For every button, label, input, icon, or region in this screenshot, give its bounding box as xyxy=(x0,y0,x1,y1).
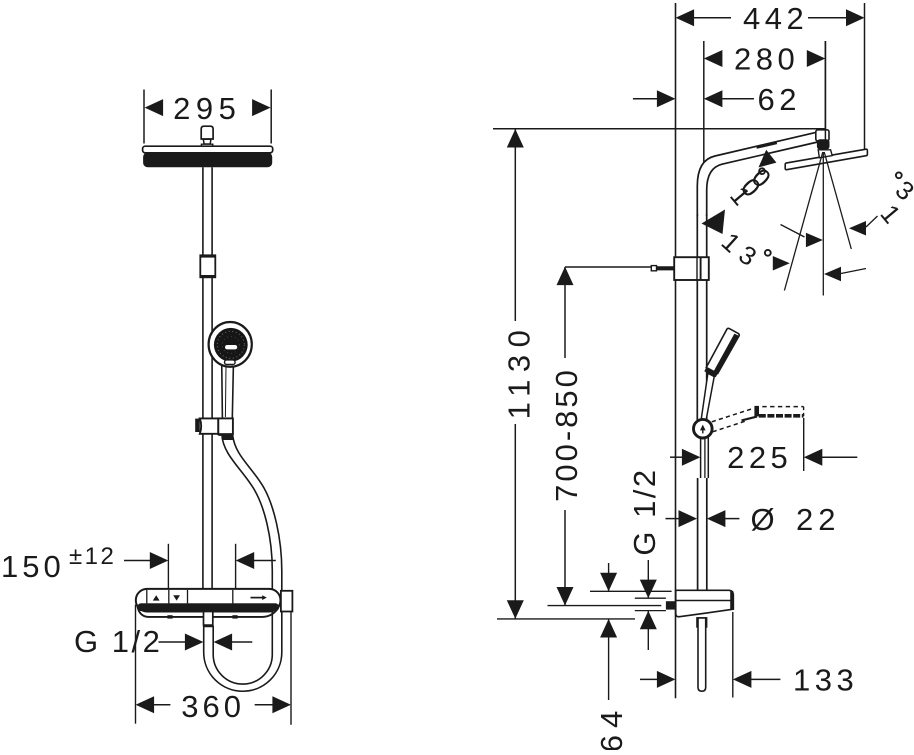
shower arm with bend (side view) xyxy=(697,132,816,216)
hand shower spray face (dark disc) xyxy=(214,328,248,362)
dim 295 right extension line xyxy=(270,90,272,144)
hand shower handle (front view) xyxy=(222,360,234,419)
dim 150 leader line xyxy=(124,560,151,562)
dim 62 right arrow xyxy=(704,90,723,107)
angle line centre (vertical) xyxy=(822,152,824,296)
dim 280 left extension line xyxy=(703,41,705,163)
hand shower head (side view, solid) xyxy=(706,328,739,373)
svg-text:G 1/2: G 1/2 xyxy=(74,624,162,659)
svg-text:225: 225 xyxy=(727,440,792,475)
outlet collar below shelf xyxy=(697,618,707,627)
svg-text:150: 150 xyxy=(1,549,65,584)
thermostat lower shell outline xyxy=(137,605,279,617)
hand shower holder left knob (dark) xyxy=(195,419,200,432)
dim 62 right tail xyxy=(722,98,754,100)
G1/2 right tail xyxy=(232,641,253,643)
13deg-right arrow at centre line xyxy=(824,267,841,282)
dim 133 left arrow xyxy=(657,671,676,688)
thermostat button divider 1 xyxy=(146,590,148,604)
svg-text:1130: 1130 xyxy=(502,323,537,420)
hand shower hose lines behind holder (side view) xyxy=(700,438,702,479)
dim 280 right extension line xyxy=(824,41,826,141)
hand shower handle (side view) xyxy=(701,373,714,420)
dim 360 right extension line xyxy=(290,612,292,725)
pivot ball (dark) xyxy=(817,139,830,149)
dim 1130 line lower xyxy=(514,424,516,619)
dim Ø22 left arrow xyxy=(679,510,698,527)
supply nipple tick left xyxy=(167,615,172,618)
riser pipe back edge upper (side view) xyxy=(706,214,708,420)
svg-text:±12: ±12 xyxy=(69,543,116,570)
riser pipe front edge lower (side view) xyxy=(697,478,699,590)
svg-text:64: 64 xyxy=(594,704,629,750)
svg-text:360: 360 xyxy=(181,689,245,724)
wall bracket coupling (front view) xyxy=(200,255,215,277)
wall bracket (side view) xyxy=(674,257,709,280)
shower head black body band xyxy=(143,152,272,167)
pivot upper connector xyxy=(816,130,829,141)
thermostat black bottom band xyxy=(138,603,278,611)
dim 442 left arrow xyxy=(676,9,695,26)
riser pipe back edge lower (side view) xyxy=(706,478,708,590)
dim 64 line upper xyxy=(608,563,610,591)
dashed alternate hand shower head xyxy=(755,406,804,408)
angle line left (-13 deg) xyxy=(784,152,822,291)
dim 295 left extension line xyxy=(143,90,145,144)
top reference line (arm level) xyxy=(493,128,825,130)
overhead shower plate (side view) xyxy=(785,149,867,170)
dim 64 bottom arrow xyxy=(600,619,617,638)
G1/2 top arrow xyxy=(640,580,657,599)
dim 150 right tail line xyxy=(254,560,276,562)
dim 64 line lower xyxy=(608,619,610,700)
100 deg tick on arm xyxy=(757,143,777,148)
13deg-right leader 2 xyxy=(866,216,878,227)
bottom reference line xyxy=(497,618,635,620)
angle text 100 deg xyxy=(724,162,777,211)
thermostat capsule body xyxy=(136,589,281,612)
dim 225 left arrow xyxy=(682,449,701,466)
svg-text:22: 22 xyxy=(796,502,840,537)
dim 280 left arrow xyxy=(704,50,723,67)
svg-text:442: 442 xyxy=(743,1,808,36)
angle text 13 deg (left) xyxy=(716,226,771,272)
shower hose (front view): S-curve from holder and U-loop to outlet xyxy=(204,435,282,691)
dim 150 right arrow xyxy=(236,552,255,569)
G1/2 dim line lower xyxy=(647,611,649,650)
shelf right end cap (dark) xyxy=(730,591,733,609)
riser pipe right edge (front view) xyxy=(211,167,213,589)
wall connection block (dark) xyxy=(666,601,676,609)
13deg-left arrow at centre line xyxy=(806,233,823,248)
supply nipple tick right xyxy=(232,615,237,618)
thermostat outlet stub xyxy=(204,612,213,626)
thermostat button divider 4 xyxy=(232,590,234,604)
dim 62 left tail xyxy=(633,98,658,100)
dim 360 right arrow xyxy=(272,696,291,713)
dim 700-850 line upper xyxy=(564,267,566,358)
thermostat temperature scale dash xyxy=(251,597,264,599)
G1/2 upper ref line xyxy=(635,597,666,599)
svg-text:Ø: Ø xyxy=(751,502,775,537)
dim 64 top arrow xyxy=(600,573,617,592)
holder ball joint (side view) xyxy=(694,419,713,438)
100 deg arrowhead pointing at riser xyxy=(702,210,726,235)
dim 133 right arrow xyxy=(733,671,752,688)
dim 133 left tail xyxy=(640,678,658,680)
G1/2 bottom arrow xyxy=(640,611,657,630)
dim 133 right tail xyxy=(751,678,781,680)
dim 150 left arrow xyxy=(150,552,169,569)
pivot lower connector xyxy=(818,150,832,158)
angle line right (+13 deg) xyxy=(824,152,851,249)
dim 295 right arrow xyxy=(252,99,271,116)
dim 295 left arrow xyxy=(145,99,164,116)
shelf-top reference line xyxy=(590,590,672,592)
hand shower bottom button xyxy=(225,360,236,365)
G1/2 right arrow xyxy=(214,634,233,651)
dim 360 left arrow xyxy=(136,696,155,713)
riser pipe front edge upper (side view) xyxy=(696,214,698,420)
svg-text:133: 133 xyxy=(793,663,858,698)
thermostat button divider 2 xyxy=(168,590,170,604)
dim 225 right extension line xyxy=(803,418,805,471)
dim 442 right arrow xyxy=(846,9,865,26)
dim 150 right extension line xyxy=(235,544,237,589)
dim 280 right extension line (over connector) xyxy=(824,41,826,148)
dim Ø22 right tail xyxy=(725,518,740,520)
shower head ball joint connector xyxy=(201,126,213,139)
hand shower head outer rim xyxy=(209,322,252,367)
G1/2 left arrow xyxy=(185,634,204,651)
dim 360 left extension line xyxy=(135,605,137,724)
13deg-right leader xyxy=(841,269,866,274)
svg-text:280: 280 xyxy=(734,42,799,77)
dim 700-850 line lower xyxy=(564,510,566,606)
alternate head spray face (dark band) xyxy=(759,414,804,418)
G1/2 dim line upper xyxy=(647,560,649,598)
hand shower holder body xyxy=(200,418,219,433)
shower head top plate (front view) xyxy=(143,146,273,153)
dim 225 right tail xyxy=(822,456,858,458)
hose nut below holder xyxy=(222,435,234,440)
thermostat button divider 3 xyxy=(187,590,189,604)
riser pipe left edge (front view) xyxy=(202,167,204,589)
svg-text:295: 295 xyxy=(173,91,241,126)
hand shower holder clamp xyxy=(218,418,233,434)
hand shower spray band (side view) xyxy=(714,334,739,374)
13deg-right arrow at right line xyxy=(849,221,866,236)
13deg-left arrow at left line xyxy=(773,256,790,271)
dim Ø22 right arrow xyxy=(707,510,726,527)
thermostat up-button glyph xyxy=(153,595,160,600)
dim 133 right extension line xyxy=(732,612,734,698)
G1/2 lower ref line xyxy=(635,610,666,612)
100 deg arrowhead pointing at arm xyxy=(759,150,777,168)
svg-text:62: 62 xyxy=(758,82,801,117)
dim 225 left tail xyxy=(670,456,683,458)
outlet tube below shelf xyxy=(698,618,706,691)
dim 700-850 top arrow xyxy=(557,267,574,286)
solid joining line under alt head xyxy=(742,417,758,421)
thermostat shelf (side view) xyxy=(676,590,734,616)
dim 280 right arrow xyxy=(807,50,826,67)
dim 150 left extension line xyxy=(167,544,169,589)
hand shower head bottom cap xyxy=(704,367,717,377)
bracket pin shaft xyxy=(656,266,674,270)
dim Ø22 left tail xyxy=(666,518,680,520)
angle text 13 deg (right) xyxy=(874,172,914,229)
hand shower centre logo dash xyxy=(225,345,237,349)
shelf plate line xyxy=(676,600,733,602)
svg-text:700-850: 700-850 xyxy=(549,367,584,502)
thermostat down-button glyph xyxy=(173,595,180,600)
svg-text:G 1/2: G 1/2 xyxy=(627,467,662,555)
dim 62 left arrow xyxy=(657,90,676,107)
wall supply axis extension line xyxy=(675,3,677,698)
G1/2 left tail xyxy=(159,641,187,643)
dim 1130 bottom arrow xyxy=(507,600,524,619)
thermostat select block (right end) xyxy=(281,591,293,612)
bracket pin reference line xyxy=(565,266,652,268)
dim 700-850 bottom arrow xyxy=(557,587,574,606)
dim 225 right arrow xyxy=(804,449,823,466)
dashed alternate hand shower handle xyxy=(712,408,754,422)
supply axis reference line xyxy=(548,605,662,607)
dim 1130 top arrow xyxy=(507,129,524,148)
dim 442 right extension line xyxy=(864,3,866,152)
dim 1130 line upper xyxy=(514,129,516,321)
13deg-left leader xyxy=(781,225,805,238)
